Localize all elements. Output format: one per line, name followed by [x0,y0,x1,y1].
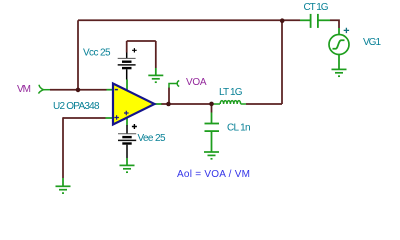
svg-text:Vee 25: Vee 25 [138,133,166,144]
ground under VG1 [332,69,347,76]
wire right vertical feedback [281,20,283,104]
pin stub op-amp V- bottom [126,117,128,126]
ground under CL [204,152,219,159]
wire CT right to VG1 corner [330,20,339,28]
svg-text:VG1: VG1 [363,37,381,48]
svg-text:CL 1n: CL 1n [227,122,251,133]
wire VM input to op-amp inverting input [50,89,107,91]
pin stub op-amp noninverting input [106,117,113,119]
inductor LT 1G [212,101,247,104]
svg-text:VOA: VOA [186,77,207,88]
wire CL top lead red part [211,104,213,113]
wire Vcc loop top [127,40,156,42]
wire op-amp noninverting input to ground (horizontal) [63,117,106,119]
op-amp supply plus marker [124,111,129,116]
wire top horizontal net Vout-to-CT [78,19,282,21]
node dot VM junction [76,88,81,93]
wire CT left lead (red part) [282,19,300,21]
wire op-amp noninverting input to ground (vertical) [62,117,64,178]
pin stub op-amp output [155,103,162,105]
op-amp noninverting input marker [114,115,119,120]
VOA tap wire and hook [169,81,179,88]
pin stub op-amp V+ top [126,80,128,93]
svg-text:LT 1G: LT 1G [219,87,243,98]
wire left vertical from top wire to VM node [77,20,79,90]
ground bottom left [56,178,71,193]
wire op-amp output to LT node [161,103,212,105]
wire Vcc loop right drop to ground [155,41,157,68]
svg-text:VM: VM [17,84,31,95]
VG1 plus marker [344,28,349,33]
wire LT right lead to right vertical [246,103,282,105]
voltage source VG1 [329,28,349,69]
battery Vee 25 [118,124,137,158]
svg-text:Vcc 25: Vcc 25 [83,48,111,59]
node dot top wire junction [280,18,285,23]
svg-text:CT 1G: CT 1G [304,2,329,13]
op-amp inverting input marker [115,89,118,91]
svg-text:Aol = VOA / VM: Aol = VOA / VM [177,169,250,180]
node dot VOA junction [166,102,171,107]
capacitor CL 1n [205,113,220,152]
node dot LT/CL junction [209,102,214,107]
wire VOA tap vertical [168,88,170,105]
op-amp U2 OPA348 body [113,84,155,125]
capacitor CT 1G [300,14,330,28]
input port VM symbol [39,85,51,94]
wire Vcc loop left drop to battery [126,41,128,53]
svg-text:U2 OPA348: U2 OPA348 [53,101,100,112]
battery Vcc 25 [118,48,137,79]
pin stub op-amp inverting input [107,89,114,91]
ground under Vcc loop [148,68,163,82]
ground under Vee battery [120,158,135,172]
